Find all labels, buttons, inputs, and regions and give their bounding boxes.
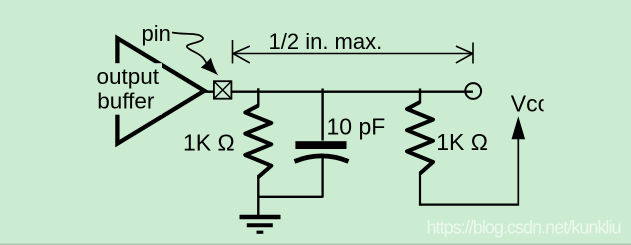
Vcc riser wire: [517, 137, 519, 206]
wire apex to pin box: [203, 90, 214, 92]
pin leader squiggle: [172, 33, 210, 68]
svg-text:https://blog.csdn.net/kunkliu: https://blog.csdn.net/kunkliu: [427, 218, 622, 238]
R1 bottom wire: [257, 176, 259, 216]
pin leader arrowhead: [201, 58, 218, 76]
ground join wire: [258, 196, 322, 198]
svg-text:Vcc: Vcc: [511, 91, 549, 117]
R2 bottom wire: [419, 172, 421, 205]
text patch behind buffer label: [94, 63, 162, 114]
dimension line: [234, 53, 473, 55]
op-amp output buffer triangle: [117, 38, 204, 143]
svg-text:1K Ω: 1K Ω: [436, 129, 488, 155]
svg-text:1/2 in. max.: 1/2 in. max.: [269, 29, 383, 54]
dimension arrowhead left: [233, 46, 250, 63]
bottom edge line: [0, 244, 631, 245]
dimension extension tick right: [472, 43, 474, 64]
svg-text:10 pF: 10 pF: [327, 114, 386, 140]
resistor R1 1K zigzag: [245, 106, 271, 178]
dimension extension tick left: [232, 40, 234, 64]
pin box X: [214, 81, 232, 99]
svg-text:1K Ω: 1K Ω: [183, 130, 235, 156]
svg-text:buffer: buffer: [97, 89, 155, 114]
pin box symbol: [214, 81, 232, 99]
node A drop to R1: [257, 88, 259, 106]
resistor R2 1K zigzag: [407, 102, 433, 174]
dimension arrowhead right: [456, 46, 473, 63]
node B drop to capacitor: [321, 89, 323, 141]
svg-text:output: output: [97, 64, 160, 89]
crop patch over Vcc: [544, 90, 558, 116]
capacitor C1 bottom plate arc: [295, 156, 349, 162]
capacitor C1 top plate: [295, 141, 346, 149]
main wire to connector: [232, 90, 473, 92]
node C drop to R2: [419, 89, 421, 104]
ground: [240, 217, 281, 232]
connector circle: [465, 83, 481, 99]
capacitor bottom wire: [321, 158, 323, 198]
dimension line 1/2 in. max.: [233, 40, 474, 64]
svg-text:pin: pin: [142, 21, 171, 46]
Vcc bottom wire: [419, 204, 518, 206]
Vcc arrowhead: [512, 116, 526, 139]
